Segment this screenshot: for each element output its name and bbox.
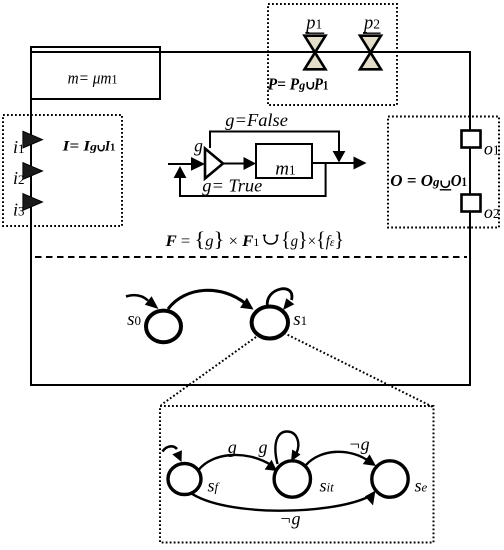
arrowhead feedback up	[174, 166, 187, 178]
svg-text:¬g: ¬g	[349, 434, 370, 454]
dashed separator	[35, 256, 467, 258]
arrowhead self-loop sit	[291, 450, 301, 462]
outer system box	[31, 52, 470, 385]
block m1	[256, 144, 312, 180]
svg-text:O = Og: O = Og	[390, 171, 440, 190]
arrowhead into se	[363, 454, 376, 466]
P dotted box	[268, 4, 397, 105]
valve p1	[304, 13, 325, 70]
svg-text:s0: s0	[127, 309, 141, 330]
arrowhead bypass down	[333, 151, 346, 163]
dotted zoom line right	[284, 333, 433, 407]
wire buffer to m1	[223, 163, 246, 165]
svg-text:g= True: g= True	[202, 176, 262, 196]
state s1	[252, 307, 288, 339]
I dotted box	[3, 115, 122, 226]
svg-text:I= Ig: I= Ig	[62, 138, 98, 154]
svg-text:m1: m1	[275, 159, 295, 180]
arrowhead into sit	[265, 460, 277, 471]
state sit	[274, 461, 310, 497]
wire g=True feedback	[180, 163, 326, 196]
svg-text:g: g	[228, 437, 237, 457]
svg-text:I1: I1	[104, 138, 115, 154]
O dotted box	[388, 117, 499, 228]
I equation	[62, 138, 116, 154]
svg-text:s1: s1	[293, 309, 307, 330]
state sf	[168, 464, 201, 495]
output square o1	[462, 131, 481, 148]
arc sit to se	[306, 452, 370, 465]
initial arrow into s0	[126, 295, 148, 300]
block m = mu m1	[31, 47, 160, 99]
arrowhead into buffer	[191, 157, 205, 171]
svg-text:¬g: ¬g	[279, 509, 300, 529]
buffer gate g	[205, 149, 223, 179]
state se	[372, 461, 408, 497]
arrowhead into se bottom	[365, 491, 376, 506]
wire m1 output	[312, 162, 355, 164]
svg-text:m= μm1: m= μm1	[68, 69, 118, 88]
arrowhead into s1	[240, 298, 253, 310]
self-loop on s1	[267, 289, 292, 307]
dotted zoom line left	[161, 337, 256, 405]
valve p2	[360, 13, 381, 70]
svg-text:g=False: g=False	[225, 110, 288, 130]
svg-text:g: g	[259, 437, 268, 457]
arrowhead output	[354, 157, 367, 170]
O equation	[390, 171, 467, 190]
self-loop on sit	[275, 432, 298, 465]
initial arrow into sf	[163, 446, 178, 451]
zoom dotted box	[160, 406, 434, 543]
arrowhead self-loop s1	[283, 298, 294, 310]
output square o2	[462, 195, 481, 212]
wire g=False bypass	[210, 132, 339, 153]
svg-text:g: g	[194, 136, 203, 156]
arc s0 to s1	[168, 290, 246, 309]
input triangle i2	[23, 163, 43, 180]
long arc sf to se	[190, 493, 368, 511]
input triangle i3	[23, 194, 43, 211]
F equation	[165, 227, 344, 251]
P equation	[267, 74, 329, 93]
arc sf to sit	[199, 455, 272, 470]
state s0	[146, 311, 181, 343]
svg-text:P= Pg: P= Pg	[267, 74, 306, 93]
wire input to buffer	[168, 163, 195, 165]
arrowhead into m1	[244, 157, 257, 170]
input triangle i1	[23, 131, 43, 148]
